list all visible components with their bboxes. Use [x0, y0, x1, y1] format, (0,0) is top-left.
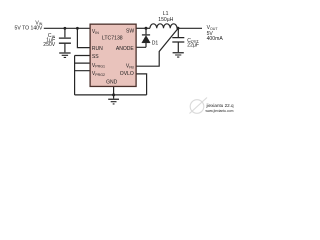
svg-text:D1: D1 [152, 41, 159, 47]
svg-text:5V TO 140V: 5V TO 140V [15, 25, 43, 31]
svg-text:SW: SW [126, 29, 134, 35]
svg-text:jiexiantu 22.q: jiexiantu 22.q [206, 103, 235, 108]
svg-text:SS: SS [92, 54, 99, 60]
svg-text:22µF: 22µF [187, 42, 199, 48]
svg-text:LTC7138: LTC7138 [102, 35, 123, 41]
svg-text:GND: GND [106, 80, 118, 86]
svg-text:ANODE: ANODE [116, 46, 135, 52]
svg-text:OVLO: OVLO [120, 71, 134, 77]
svg-text:RUN: RUN [92, 46, 103, 52]
svg-text:150µH: 150µH [158, 17, 173, 23]
svg-text:www.jiexiantu.com: www.jiexiantu.com [206, 109, 234, 113]
svg-text:400mA: 400mA [207, 36, 224, 42]
svg-text:250V: 250V [43, 42, 55, 48]
